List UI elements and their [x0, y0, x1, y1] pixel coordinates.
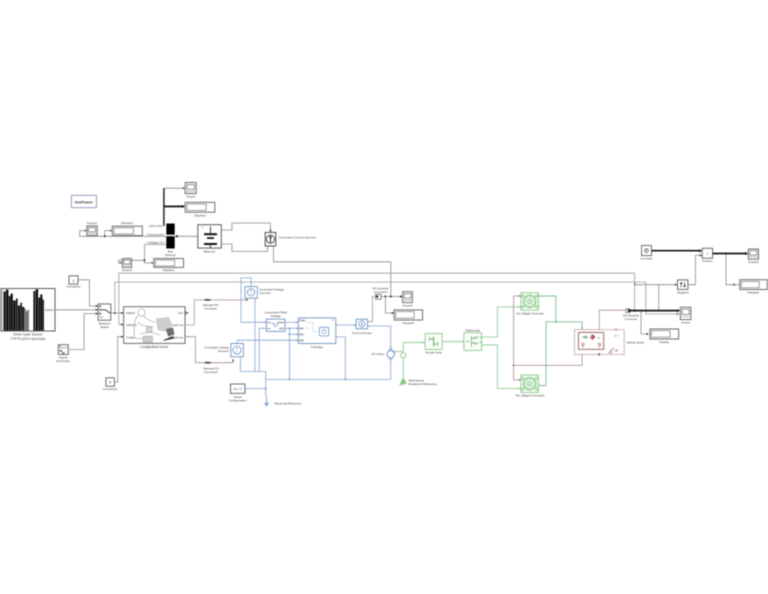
svg-text:Longitudinal Driver: Longitudinal Driver [140, 345, 169, 349]
tire Tire Magic Formula1 [515, 375, 545, 398]
svg-text:<SOC (%)>: <SOC (%)> [148, 224, 164, 228]
wire vehicle body V out (maroon) [599, 310, 625, 330]
solver configuration [229, 384, 247, 403]
svg-text:ref+: ref+ [267, 321, 272, 324]
subsystem Longitudinal Driver [124, 307, 185, 349]
driver art [134, 309, 160, 339]
wire gear to differential [442, 341, 463, 343]
wire A speed feedback (long) [119, 273, 635, 324]
svg-text:Drive Cycle Source: Drive Cycle Source [13, 332, 42, 336]
svg-text:NetPower: NetPower [75, 199, 93, 204]
wire converter1 to Display5 [385, 297, 393, 314]
SEC_BLUE [394, 293, 644, 398]
wire pwm out [285, 321, 297, 323]
wire battery- to CCS [221, 244, 267, 251]
display Display5 [394, 310, 423, 325]
svg-text:Tire (Magic Formula): Tire (Magic Formula) [516, 311, 544, 315]
wire AccelCmd PS (maroon) [185, 299, 247, 325]
constant C2 [103, 378, 117, 391]
wire DecelCmd PS (maroon) [185, 337, 233, 363]
display Display [650, 329, 679, 344]
svg-text:Simple Gear: Simple Gear [425, 350, 442, 354]
svg-text:Converter: Converter [204, 307, 217, 311]
display Display1 [154, 259, 184, 273]
svg-text:DC Motor: DC Motor [371, 352, 384, 356]
bus selector [165, 224, 176, 257]
wire product to Display4 [726, 254, 735, 285]
wire differential to tires axle [482, 307, 520, 337]
wire to rotational reference [402, 358, 404, 378]
SEC_TOPLEFT [1, 273, 680, 391]
wire SOC to Scope [164, 187, 184, 189]
svg-text:Controlled Current Source1: Controlled Current Source1 [279, 236, 317, 240]
constant Constant [640, 246, 652, 261]
wire CVS2 top to BRK [237, 340, 297, 343]
current source CCS1 [265, 232, 316, 246]
motor DC Motor [371, 349, 395, 360]
wire signal generator to switch [68, 314, 97, 350]
wire Current to Scope1/Display2 [80, 231, 167, 237]
ps-simulink converter (speed) [623, 309, 639, 321]
port info (unconnected) [185, 312, 188, 315]
wire SOC to Display3 (bold) [164, 205, 184, 207]
svg-text:BRK: BRK [299, 339, 304, 342]
svg-text:<Current (A)>: <Current (A)> [146, 233, 165, 237]
svg-text:REF: REF [279, 328, 284, 331]
svg-text:Info: Info [178, 311, 183, 315]
scope Scope2 [122, 259, 133, 273]
wire speed to Display [641, 311, 648, 334]
wire constant to product (bold) [652, 250, 701, 252]
svg-text:Display4: Display4 [747, 291, 759, 295]
svg-text:Scope: Scope [186, 195, 195, 199]
svg-text:VelFdbk: VelFdbk [126, 323, 137, 327]
wire negated to product [688, 255, 701, 284]
wire CVS1 plus loop to ref+ [241, 278, 265, 322]
product block [702, 248, 713, 263]
svg-text:Rotational Reference: Rotational Reference [409, 382, 438, 386]
wire motor- to bus [390, 360, 392, 380]
svg-text:Differential: Differential [466, 328, 481, 332]
svg-text:Generator: Generator [56, 359, 70, 363]
multiport switch [98, 304, 111, 329]
vehicle body [574, 330, 644, 357]
svg-text:×: × [706, 252, 708, 256]
svg-text:Electrical Reference: Electrical Reference [275, 402, 302, 406]
svg-text:f(x) = 0: f(x) = 0 [233, 387, 242, 391]
display Display3 [185, 202, 215, 217]
svg-text:ref-: ref- [267, 328, 271, 331]
wire CVS2 minus down [239, 357, 241, 372]
wire C1 to switch [78, 280, 97, 306]
wire hbridge- to bus [336, 337, 346, 380]
goto tag NetPower [71, 195, 96, 207]
wire battery to bus selector [176, 235, 198, 237]
svg-text:Grade: Grade [126, 335, 135, 339]
svg-text:Display3: Display3 [194, 213, 206, 217]
wire sensor to motor [368, 326, 391, 348]
svg-text:Constant2: Constant2 [103, 387, 117, 391]
signal generator [56, 345, 70, 363]
ps-simulink converter1 [373, 286, 389, 299]
svg-text:REF: REF [299, 327, 304, 330]
wire hbridge+ to sensor [336, 324, 355, 326]
svg-text:+: + [202, 226, 204, 230]
svg-text:Scope1: Scope1 [87, 221, 98, 225]
wire tires hub to vehicle body (teal) [538, 296, 582, 386]
svg-text:VelRef: VelRef [45, 308, 54, 312]
svg-text:Display1: Display1 [163, 268, 175, 272]
svg-text:Converter1: Converter1 [204, 370, 219, 374]
svg-text:FTP75 (2474 seconds): FTP75 (2474 seconds) [11, 337, 46, 341]
wire motor shaft to gear [394, 343, 424, 352]
scope Scope4 [402, 292, 413, 308]
svg-text:<Voltage (V)>: <Voltage (V)> [146, 240, 165, 244]
svg-text:Display: Display [659, 340, 669, 344]
SEC_LEFT [185, 278, 423, 407]
svg-text:PWM: PWM [299, 319, 305, 322]
svg-text:REV: REV [299, 333, 304, 336]
wire battery+ to CCS [221, 223, 270, 232]
wire ref- to ground bus [259, 328, 266, 371]
scope Scope5 [748, 249, 759, 264]
pwm block Controlled PWM Voltage [264, 311, 287, 332]
voltage source CVS1 [245, 287, 284, 299]
wire CVS1 minus down [254, 298, 256, 371]
hbridge H-Bridge [298, 318, 335, 349]
negated block [677, 280, 689, 295]
svg-text:H-Bridge: H-Bridge [311, 345, 323, 349]
svg-text:Scope5: Scope5 [748, 260, 759, 264]
svg-text:Source2: Source2 [218, 349, 230, 353]
voltage source CVS2 [204, 344, 243, 357]
display Display4 [740, 280, 767, 295]
wire tires normal force (maroon) [514, 296, 583, 380]
scope Amper [680, 307, 691, 324]
wire Voltage to Scope2/Display1 [118, 245, 166, 263]
svg-text:Configuration: Configuration [229, 399, 247, 403]
scope Scope [185, 183, 196, 199]
differential [464, 328, 482, 350]
ground bus wire [240, 372, 265, 397]
svg-text:Amper: Amper [681, 321, 690, 325]
drive cycle source [1, 289, 55, 342]
ground electrical reference [264, 396, 302, 407]
svg-text:Vehicle Body: Vehicle Body [626, 341, 644, 345]
scope Scope1 [87, 221, 98, 236]
ps converter SaturatePS [205, 299, 212, 301]
wire drive cycle to switch [55, 309, 97, 311]
svg-text:Product: Product [702, 259, 713, 263]
svg-text:Constant1: Constant1 [66, 285, 80, 289]
wire B VelRef to Amper (long) [115, 282, 678, 314]
wire converter1 out to Scope4 [381, 296, 401, 298]
svg-text:Converter: Converter [625, 317, 638, 321]
battery Battery2 [198, 225, 222, 254]
wire SOC vertical (bold) [163, 188, 165, 226]
wire product to Scope5 (bold) [713, 253, 747, 255]
svg-text:Scope2: Scope2 [122, 268, 133, 272]
ps converter SaturatePS1 [205, 362, 212, 364]
svg-text:Converter1: Converter1 [373, 290, 388, 294]
sensor Current Sensor [352, 319, 372, 335]
wire switch to driver VelRef [111, 312, 123, 314]
svg-text:Scope4: Scope4 [402, 304, 413, 308]
svg-text:Tire (Magic Formula)1: Tire (Magic Formula)1 [515, 394, 545, 398]
wire REF out to H-bridge REF and REV [285, 327, 297, 329]
svg-text:Selector: Selector [165, 253, 176, 257]
constant C1 [66, 276, 80, 289]
svg-text:PWM: PWM [278, 321, 284, 324]
wire CCS control loop [274, 246, 391, 297]
svg-text:VelRef: VelRef [126, 311, 135, 315]
wire speed bold to Amper [630, 310, 679, 312]
shaft port circle [401, 353, 406, 358]
svg-text:Switch: Switch [100, 325, 109, 329]
SEC_GREEN [623, 246, 767, 345]
svg-text:Display5: Display5 [403, 321, 415, 325]
svg-text:Source1: Source1 [260, 291, 272, 295]
wire sensor I out (maroon) [368, 297, 375, 322]
svg-text:Constant: Constant [640, 256, 652, 260]
svg-text:Negated: Negated [677, 290, 689, 294]
svg-text:Voltage: Voltage [271, 314, 282, 318]
svg-text:Current Sensor: Current Sensor [352, 331, 372, 335]
svg-text:Battery2: Battery2 [204, 249, 216, 253]
tire Tire Magic Formula [516, 293, 544, 316]
wire C2 to Grade [114, 337, 122, 382]
ground mechanical rotational reference [400, 378, 438, 386]
gear Simple Gear [425, 334, 442, 355]
wire speed to Negated [659, 285, 677, 311]
svg-text:NR: NR [615, 351, 619, 353]
display Display2 [112, 221, 142, 236]
svg-text:Display2: Display2 [121, 221, 133, 225]
